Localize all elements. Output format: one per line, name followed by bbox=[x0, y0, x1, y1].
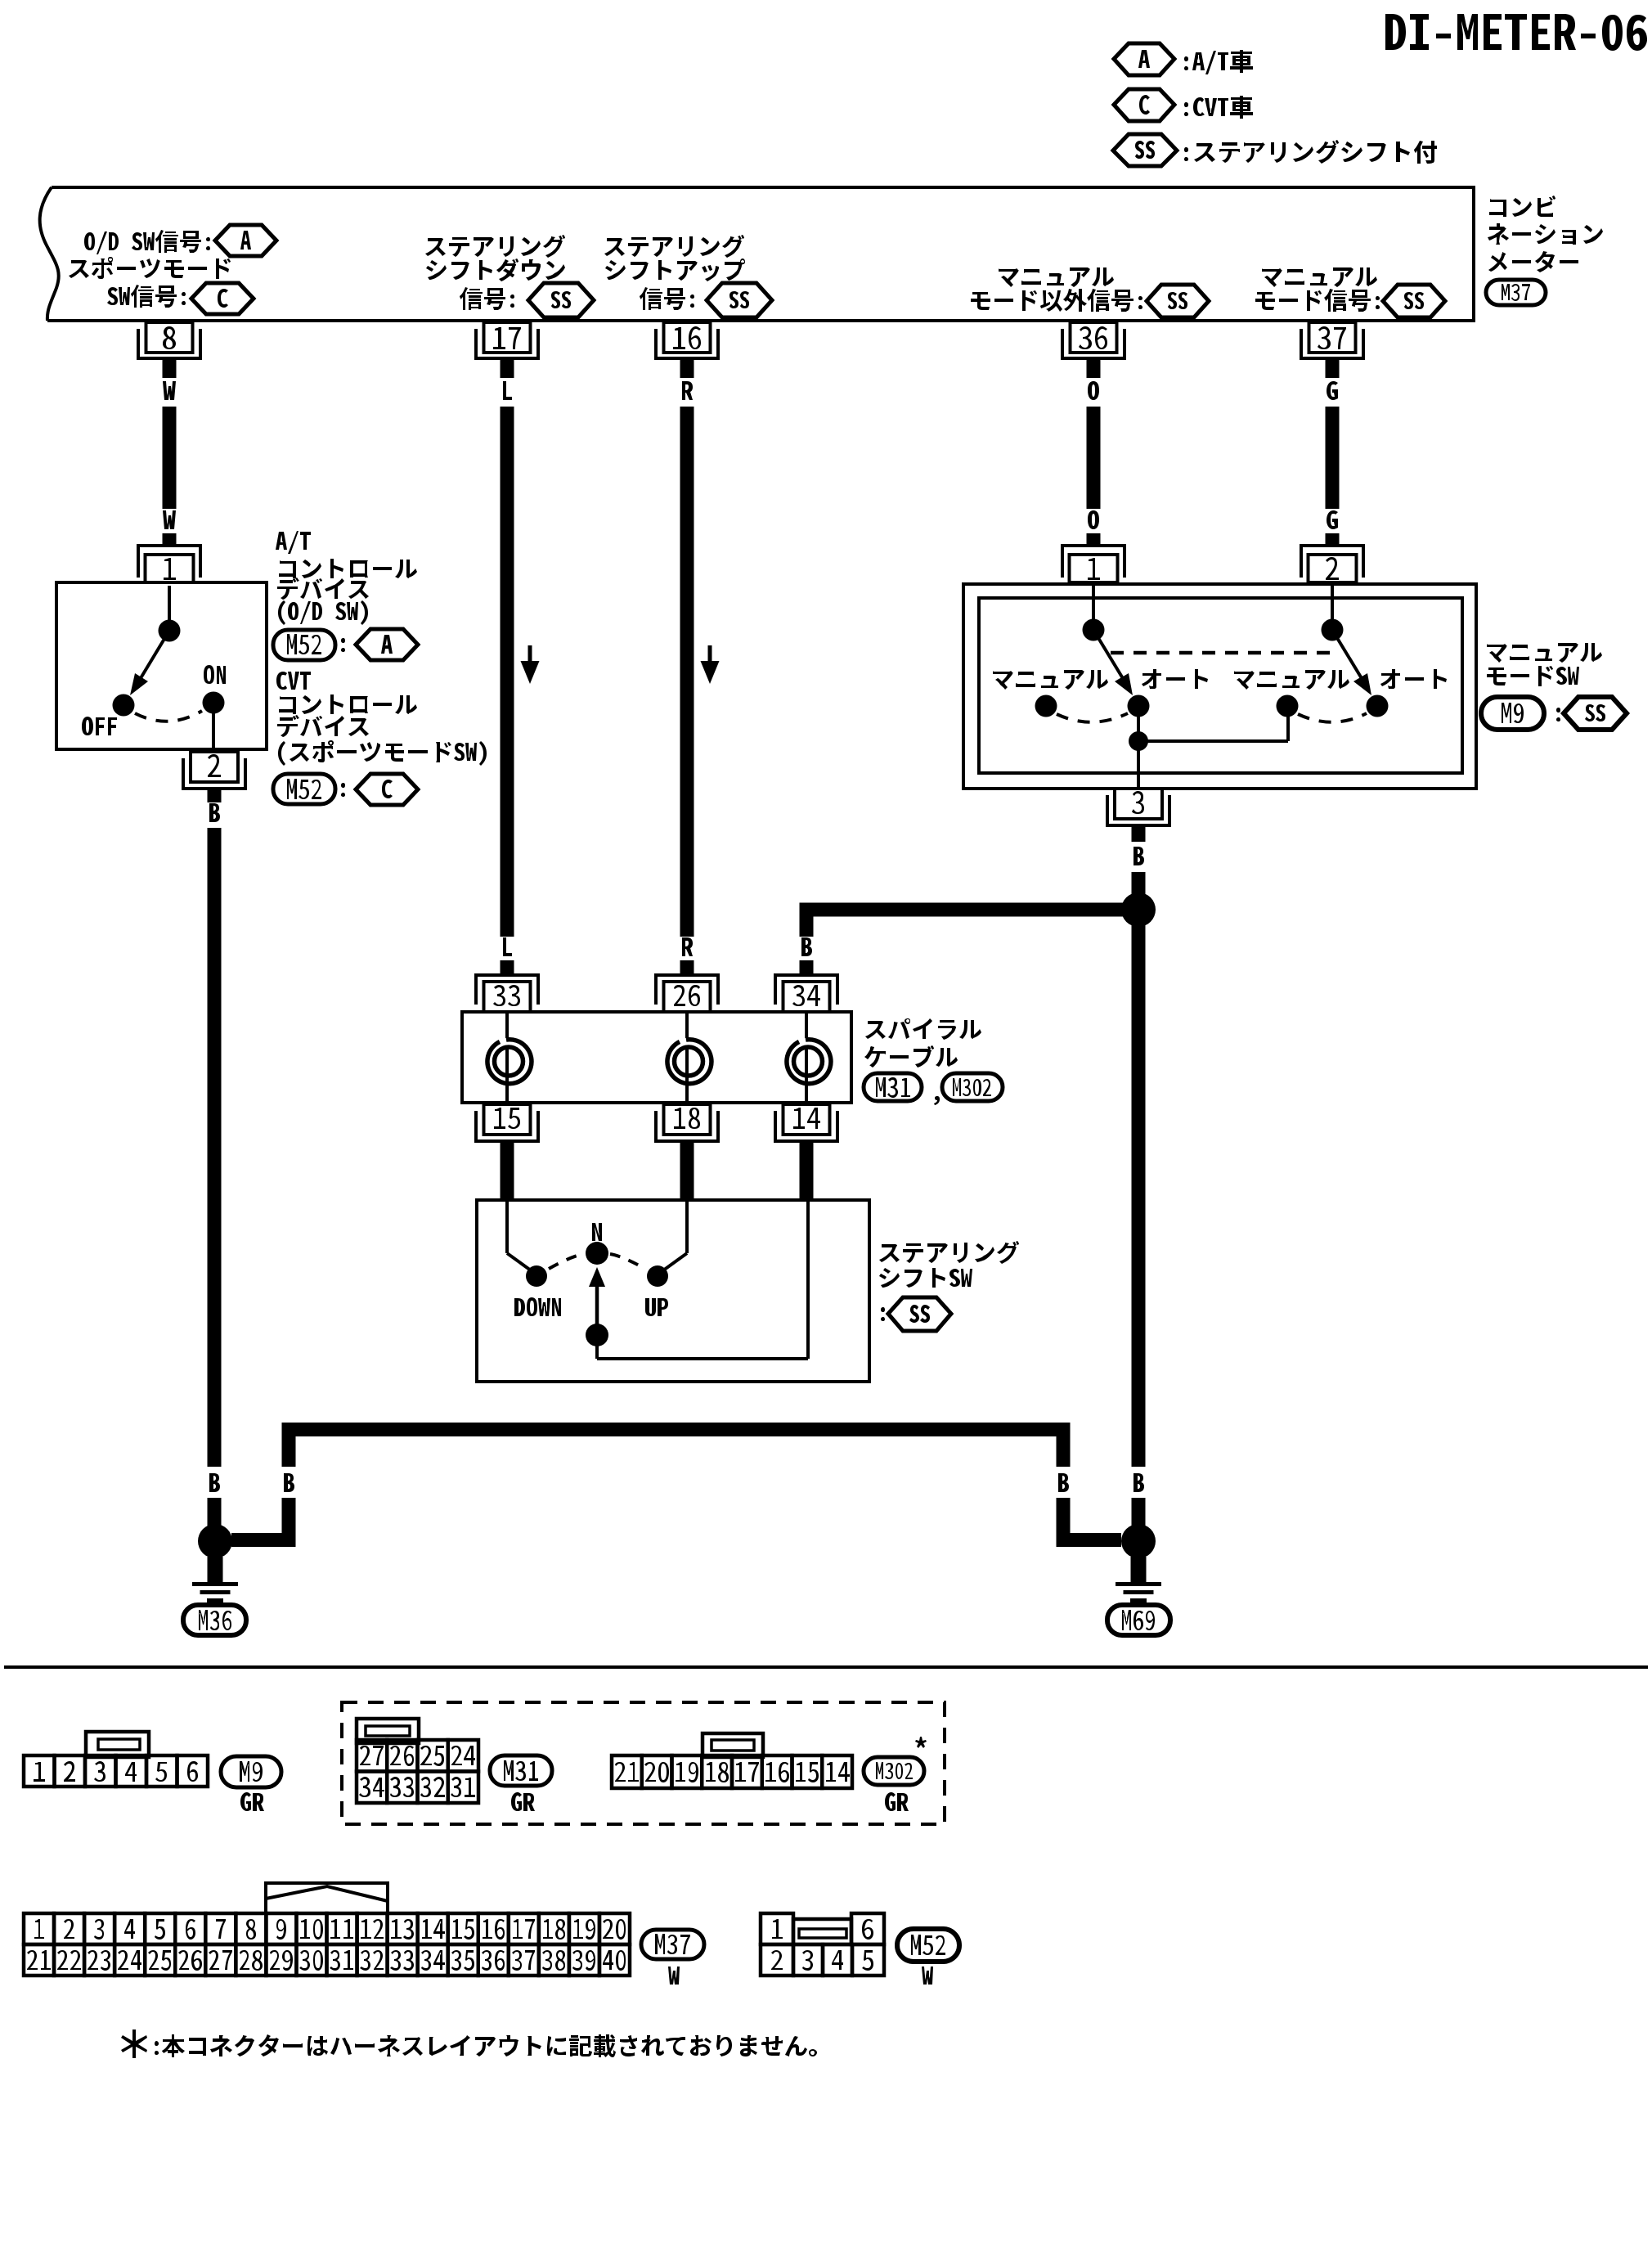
title DI-METER-06 bbox=[1385, 14, 1647, 51]
manual mode SW box M9 bbox=[963, 584, 1476, 789]
label manual mode other signal with symbol SS bbox=[971, 267, 1209, 317]
spiral cable box M31/M302 bbox=[462, 1012, 851, 1103]
label manual mode signal with symbol SS bbox=[1255, 267, 1445, 317]
steering shift SW box bbox=[477, 1200, 869, 1382]
connector M52 pinout bbox=[761, 1913, 959, 1985]
common node wiring to pin 3 bbox=[1129, 715, 1288, 789]
meter M37 pin 16 bbox=[656, 322, 718, 358]
wire B from manual mode SW pin 3 bbox=[1132, 825, 1146, 896]
meter M37 pin 37 bbox=[1301, 322, 1363, 358]
ground junction dot right bbox=[1121, 1524, 1156, 1558]
wire from spiral pin 18 to steering shift SW bbox=[680, 1141, 694, 1200]
spiral cable coil 3 bbox=[787, 1012, 831, 1103]
wire from spiral pin 15 to steering shift SW bbox=[501, 1141, 514, 1200]
label sports mode SW signal with symbol C bbox=[69, 257, 254, 314]
spiral cable pin 14 bbox=[775, 1104, 837, 1141]
dashed gang link between switches bbox=[1111, 651, 1339, 655]
manual mode SW pin 1 bbox=[1062, 546, 1125, 582]
wire O from meter pin 36 to manual mode SW pin 1 bbox=[1087, 360, 1101, 546]
footnote: this connector is not shown in harness layout bbox=[121, 2029, 817, 2058]
ground symbol M69 bbox=[1107, 1557, 1170, 1635]
wire from spiral pin 14 to steering shift SW bbox=[800, 1141, 814, 1200]
steering shift SW common pole with arrow bbox=[586, 1202, 808, 1359]
A/T control device pin 1 bbox=[138, 546, 200, 582]
label CVT control device (sports mode SW) M52 : C bbox=[273, 672, 487, 805]
label O/D SW signal with symbol A bbox=[84, 225, 276, 256]
combination meter M37 box bbox=[40, 187, 1474, 321]
ground bus wire B horizontal bbox=[282, 1423, 1071, 1436]
spiral cable coil 2 bbox=[667, 1012, 712, 1103]
junction node B bbox=[1121, 892, 1156, 927]
spiral cable pin 15 bbox=[476, 1104, 538, 1141]
spiral cable pin 18 bbox=[656, 1104, 718, 1141]
manual mode SW pin 2 bbox=[1301, 546, 1363, 582]
connector M37 pinout bbox=[24, 1883, 704, 1985]
connector M31 pinout bbox=[357, 1719, 552, 1811]
wire L from meter pin 17 to spiral cable pin 33 bbox=[501, 360, 514, 975]
meter M37 pin 36 bbox=[1062, 322, 1125, 358]
wire R from meter pin 16 to spiral cable pin 26 bbox=[680, 360, 694, 975]
spiral cable pin 26 bbox=[656, 975, 718, 1012]
ground symbol M36 bbox=[183, 1557, 246, 1635]
label steering shift SW : SS bbox=[879, 1241, 1019, 1331]
label steering shift up signal with symbol SS bbox=[604, 235, 772, 317]
ground junction dot left bbox=[198, 1524, 232, 1558]
wire G from meter pin 37 to manual mode SW pin 2 bbox=[1326, 360, 1340, 546]
ground bus right drop B to M69 bbox=[1057, 1429, 1122, 1547]
A/T control device pin 2 bbox=[183, 752, 245, 789]
label manual mode SW M9 : SS bbox=[1481, 643, 1627, 730]
wire B from A/T device pin 2 to ground M36 bbox=[208, 789, 222, 1526]
spiral cable pin 33 bbox=[476, 975, 538, 1012]
connector M302 pinout (asterisk) bbox=[612, 1733, 927, 1811]
manual/auto switch 1 inside manual mode SW bbox=[993, 586, 1208, 722]
spiral cable pin 34 bbox=[775, 975, 837, 1012]
ground bus left drop B to M36 bbox=[231, 1429, 296, 1547]
manual mode SW pin 3 bbox=[1107, 789, 1169, 825]
legend symbol SS (with steering shift) bbox=[1113, 134, 1437, 166]
arrow on wire L bbox=[521, 645, 540, 684]
legend symbol C (CVT car) bbox=[1114, 89, 1253, 121]
steering shift switch contacts bbox=[507, 1202, 687, 1316]
A/T / CVT control device box M52 bbox=[56, 582, 267, 749]
arrow on wire R bbox=[701, 645, 720, 684]
meter M37 pin 17 bbox=[476, 322, 538, 358]
wire W from meter pin 8 to A/T device pin 1 bbox=[163, 360, 177, 546]
O/D switch inside A/T control device bbox=[82, 586, 226, 749]
manual/auto switch 2 inside manual mode SW bbox=[1234, 586, 1447, 722]
wire B from junction to spiral cable pin 34 bbox=[800, 903, 1124, 976]
label spiral cable M31 M302 bbox=[864, 1018, 1003, 1105]
legend symbol A (A/T car) bbox=[1114, 43, 1253, 75]
meter M37 pin 8 bbox=[138, 322, 200, 358]
spiral cable coil 1 bbox=[487, 1012, 532, 1103]
dashed box around M31 and M302 connectors bbox=[342, 1702, 945, 1824]
label steering shift down signal with symbol SS bbox=[425, 235, 594, 317]
wire B from junction to ground M69 bbox=[1132, 925, 1146, 1526]
label combination meter (konbi neeshon meetaa) M37 bbox=[1486, 196, 1603, 305]
connector M9 pinout bbox=[24, 1732, 281, 1811]
label A/T control device (O/D SW) M52 : A bbox=[273, 531, 418, 660]
separator line bbox=[4, 1665, 1648, 1669]
